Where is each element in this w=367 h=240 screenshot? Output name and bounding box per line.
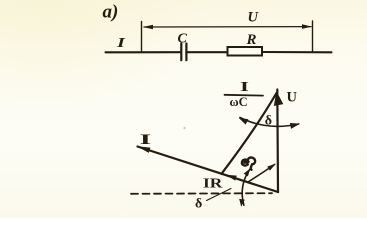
dimension line U (144, 26, 311, 28)
phasor U (vertical vector) (276, 90, 279, 193)
dashed reference line (131, 192, 272, 195)
dimension tick right (312, 21, 314, 51)
resistor R (228, 47, 263, 56)
arrowhead I (137, 146, 151, 153)
paper fleck (183, 127, 185, 129)
svg-text:I: I (116, 34, 126, 50)
dimension tick left (141, 22, 143, 52)
label I (circuit current) (116, 34, 126, 50)
svg-text:I: I (140, 131, 152, 147)
label IR (203, 176, 223, 191)
capacitor C plates (180, 44, 182, 61)
angle delta bottom arc (242, 169, 250, 205)
arrowhead IR (226, 175, 237, 181)
svg-text:а): а) (103, 2, 119, 23)
svg-text:C: C (178, 32, 188, 47)
fraction label I over omega-C (240, 80, 249, 95)
svg-text:δ: δ (265, 114, 272, 129)
phasor I line (through IR) (138, 147, 279, 193)
angle delta top arc (240, 118, 299, 127)
arrowhead U (272, 90, 284, 106)
wire left segment (106, 51, 181, 53)
leader line from delta label (207, 189, 232, 201)
wire right segment (262, 51, 332, 53)
wire between C and R (186, 51, 227, 53)
label phi (242, 158, 255, 170)
svg-text:IR: IR (203, 176, 223, 191)
angle phi arc (248, 165, 275, 183)
svg-text:δ: δ (195, 197, 202, 212)
svg-text:U: U (248, 10, 260, 26)
svg-text:R: R (246, 32, 257, 48)
phasor I/wC (capacitive voltage) (222, 93, 277, 174)
label I (phasor) (140, 131, 152, 147)
svg-text:ωC: ωC (230, 95, 248, 109)
svg-text:U: U (287, 90, 298, 106)
svg-text:I: I (240, 80, 249, 95)
